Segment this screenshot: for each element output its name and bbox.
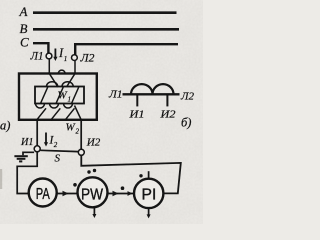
ground [14,152,34,161]
wire PI to И2 [81,155,181,193]
winding W2 secondary turns [36,104,82,120]
svg-text:И1: И1 [20,136,33,148]
figure b: primary line [123,93,180,95]
current arrow I2 [44,133,58,150]
terminal И1 [20,136,40,152]
svg-text:И1: И1 [128,109,144,121]
figure b: secondary winding arcs [131,84,174,94]
switch S [40,150,78,164]
svg-text:1: 1 [64,55,68,63]
svg-text:2: 2 [54,141,58,149]
wire bus C left segment [33,43,48,53]
label W2 [66,122,80,136]
wire bus C right segment [75,44,178,55]
crossing hop on box edge [58,70,65,73]
svg-text:С: С [20,35,29,50]
wire bus B [33,28,179,31]
svg-text:А: А [19,4,28,19]
transformer core [35,87,84,104]
wire winding to И2 [80,120,82,149]
svg-text:а): а) [0,119,10,133]
svg-text:Л2: Л2 [79,53,94,65]
svg-text:И2: И2 [86,137,101,149]
svg-text:Л1: Л1 [30,51,44,63]
terminal Л1 [30,51,52,63]
terminal И2 [78,137,100,156]
wire PA to PW with arrow and dot [57,183,78,196]
terminal Л2 [72,53,95,65]
svg-text:И2: И2 [159,109,176,121]
wire И1 to PA [17,152,37,194]
wire winding to И1 [36,120,38,146]
svg-text:1: 1 [68,96,72,104]
edge smudge [0,169,2,189]
svg-text:PI: PI [142,187,157,204]
svg-text:PW: PW [81,187,103,204]
svg-text:б): б) [181,116,191,130]
svg-text:S: S [55,153,61,165]
current arrow I1 [53,46,67,63]
svg-text:PA: PA [36,186,50,203]
svg-text:Л1: Л1 [108,89,123,101]
wire bus A [33,11,177,14]
svg-text:2: 2 [76,128,80,136]
label W1 [58,90,72,104]
svg-text:W: W [58,90,68,102]
ammeter PA [29,179,57,207]
wire Л1 to winding W1 [49,59,58,87]
svg-text:W: W [66,122,76,134]
figure b: tap И2 [166,94,168,106]
figure b: tap И1 [136,94,138,106]
counter PI [134,171,163,218]
transformer enclosure box [19,74,97,120]
svg-text:Л2: Л2 [180,91,195,103]
wire Л2 to winding W1 [67,61,76,88]
winding W1 primary turns [41,82,80,104]
wire PW to PI with arrows and dot [108,186,134,196]
wattmeter PW [78,169,108,218]
